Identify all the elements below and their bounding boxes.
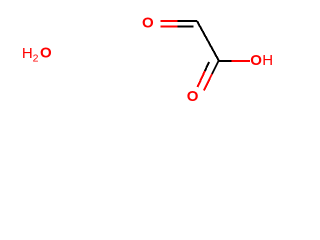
double bond O=C1, main line red half — [161, 20, 178, 22]
bond C2-OH black half — [219, 60, 232, 62]
acid C2=O double bond left line black half — [205, 62, 209, 71]
svg-text:O: O — [142, 14, 154, 31]
svg-text:H: H — [22, 45, 33, 62]
bond C1-C2 — [197, 21, 219, 61]
double bond O=C1, second line red half — [161, 26, 178, 28]
acid C2=O double bond left line red half — [198, 71, 205, 87]
svg-text:H: H — [262, 52, 273, 69]
svg-text:O: O — [40, 44, 52, 61]
bond C2-OH red half — [232, 60, 251, 62]
acid C2=O double bond right line red half — [204, 74, 212, 91]
svg-text:2: 2 — [33, 53, 39, 65]
svg-text:O: O — [250, 52, 262, 69]
svg-text:O: O — [187, 88, 199, 105]
acid C2=O double bond right line black half — [212, 61, 219, 74]
double bond O=C1, main line black half — [178, 20, 198, 22]
double bond O=C1, second line black half — [178, 26, 194, 28]
water molecule label H2O — [22, 44, 52, 64]
